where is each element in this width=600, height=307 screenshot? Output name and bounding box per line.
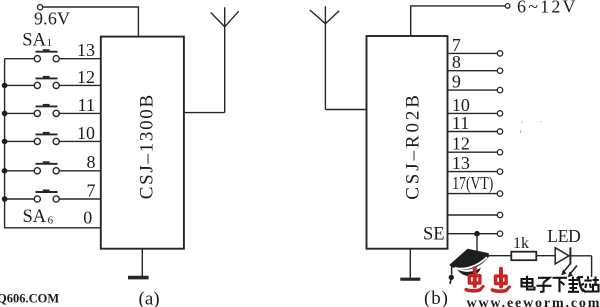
svg-text:CSJ–R02B: CSJ–R02B — [402, 95, 423, 200]
svg-text:12: 12 — [77, 67, 95, 87]
svg-text:CSJ–1300B: CSJ–1300B — [137, 95, 158, 200]
svg-text:11: 11 — [452, 113, 469, 133]
svg-text:SE: SE — [423, 225, 445, 245]
svg-text:13: 13 — [452, 153, 470, 173]
svg-text:SA6: SA6 — [23, 207, 54, 227]
svg-text:9: 9 — [452, 72, 461, 92]
svg-text:7: 7 — [87, 181, 96, 201]
svg-text:www.eeworm.com: www.eeworm.com — [467, 296, 600, 307]
svg-text:8: 8 — [452, 52, 461, 72]
svg-text:12: 12 — [452, 134, 470, 154]
svg-text:10: 10 — [77, 123, 95, 143]
svg-text:10: 10 — [452, 95, 470, 115]
svg-text:(a): (a) — [139, 289, 160, 307]
svg-text:0: 0 — [83, 208, 92, 228]
svg-text:Q606.COM: Q606.COM — [0, 292, 59, 306]
svg-text:9.6V: 9.6V — [34, 9, 70, 29]
svg-text:1k: 1k — [513, 235, 529, 252]
svg-text:17(VT): 17(VT) — [452, 173, 493, 193]
svg-text:13: 13 — [77, 40, 95, 60]
svg-text:SA1: SA1 — [22, 31, 52, 51]
svg-text:LED: LED — [547, 226, 581, 246]
svg-text:8: 8 — [87, 152, 96, 172]
svg-text:11: 11 — [78, 95, 95, 115]
svg-text:(b): (b) — [424, 288, 449, 307]
svg-text:6~12V: 6~12V — [517, 0, 576, 17]
